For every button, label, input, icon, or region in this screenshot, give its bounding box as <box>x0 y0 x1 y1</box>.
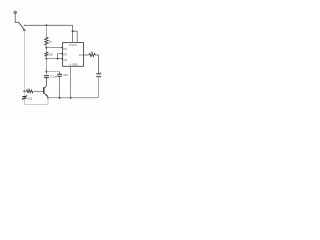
transistor Q1 <box>43 87 45 94</box>
node K junction <box>23 90 25 92</box>
resistor R4 <box>89 53 95 56</box>
node B junction <box>45 24 47 26</box>
wire to corner <box>95 55 98 74</box>
wire to C2 <box>46 71 59 73</box>
capacitor C2 <box>59 72 61 75</box>
resistor R3 <box>24 90 26 92</box>
node F junction <box>45 71 47 73</box>
svg-text:0.02: 0.02 <box>27 97 32 100</box>
wire rail bottom <box>24 98 48 105</box>
svg-text:4 GND: 4 GND <box>70 62 78 66</box>
node G junction <box>47 97 49 99</box>
wire bottom horizontal <box>48 97 99 99</box>
wire to pin 1 <box>46 47 62 49</box>
node I junction <box>70 97 72 99</box>
wire out pin <box>84 54 90 56</box>
wire mid rail <box>45 48 47 52</box>
wire mid rail lower <box>45 59 47 75</box>
wire gnd pin 4 <box>70 66 72 97</box>
wire antenna stem <box>15 14 18 22</box>
background <box>0 0 117 120</box>
capacitor C4 electrolytic <box>96 73 101 75</box>
wire rail to C3 <box>23 91 25 96</box>
node A junction <box>23 29 25 31</box>
switch S1 blade <box>19 22 25 30</box>
wire collector <box>44 78 46 88</box>
wire base <box>34 90 43 92</box>
wire cap to bottom <box>98 77 100 97</box>
node H junction <box>59 97 61 99</box>
IC U1 <box>63 43 84 67</box>
wire left rail <box>23 30 25 91</box>
wire mid rail upper <box>45 25 47 37</box>
capacitor C3 variable <box>22 96 26 98</box>
svg-text:8 VCC: 8 VCC <box>69 43 77 47</box>
wire branch to pin 2 <box>58 54 63 59</box>
wire <box>45 56 47 58</box>
pin stubs left <box>61 47 62 48</box>
svg-text:104: 104 <box>63 73 68 77</box>
node D junction <box>45 58 47 60</box>
node C junction <box>45 47 47 49</box>
antenna terminal <box>14 11 17 14</box>
svg-text:1k: 1k <box>48 39 52 43</box>
switch S1 contact arrow <box>23 25 25 26</box>
svg-text:10k: 10k <box>48 53 53 57</box>
wire to pin 3 <box>46 58 62 60</box>
wire top pin 8 corner <box>72 25 74 42</box>
wire top horizontal <box>25 24 73 26</box>
node J junction <box>72 30 74 32</box>
capacitor C1 <box>44 75 49 77</box>
resistor R2 <box>45 52 48 57</box>
node E junction <box>57 58 59 60</box>
resistor R1 <box>45 37 48 45</box>
wire vcc branch <box>73 31 78 42</box>
wire <box>45 45 47 48</box>
svg-text:0.1uF: 0.1uF <box>50 75 57 79</box>
